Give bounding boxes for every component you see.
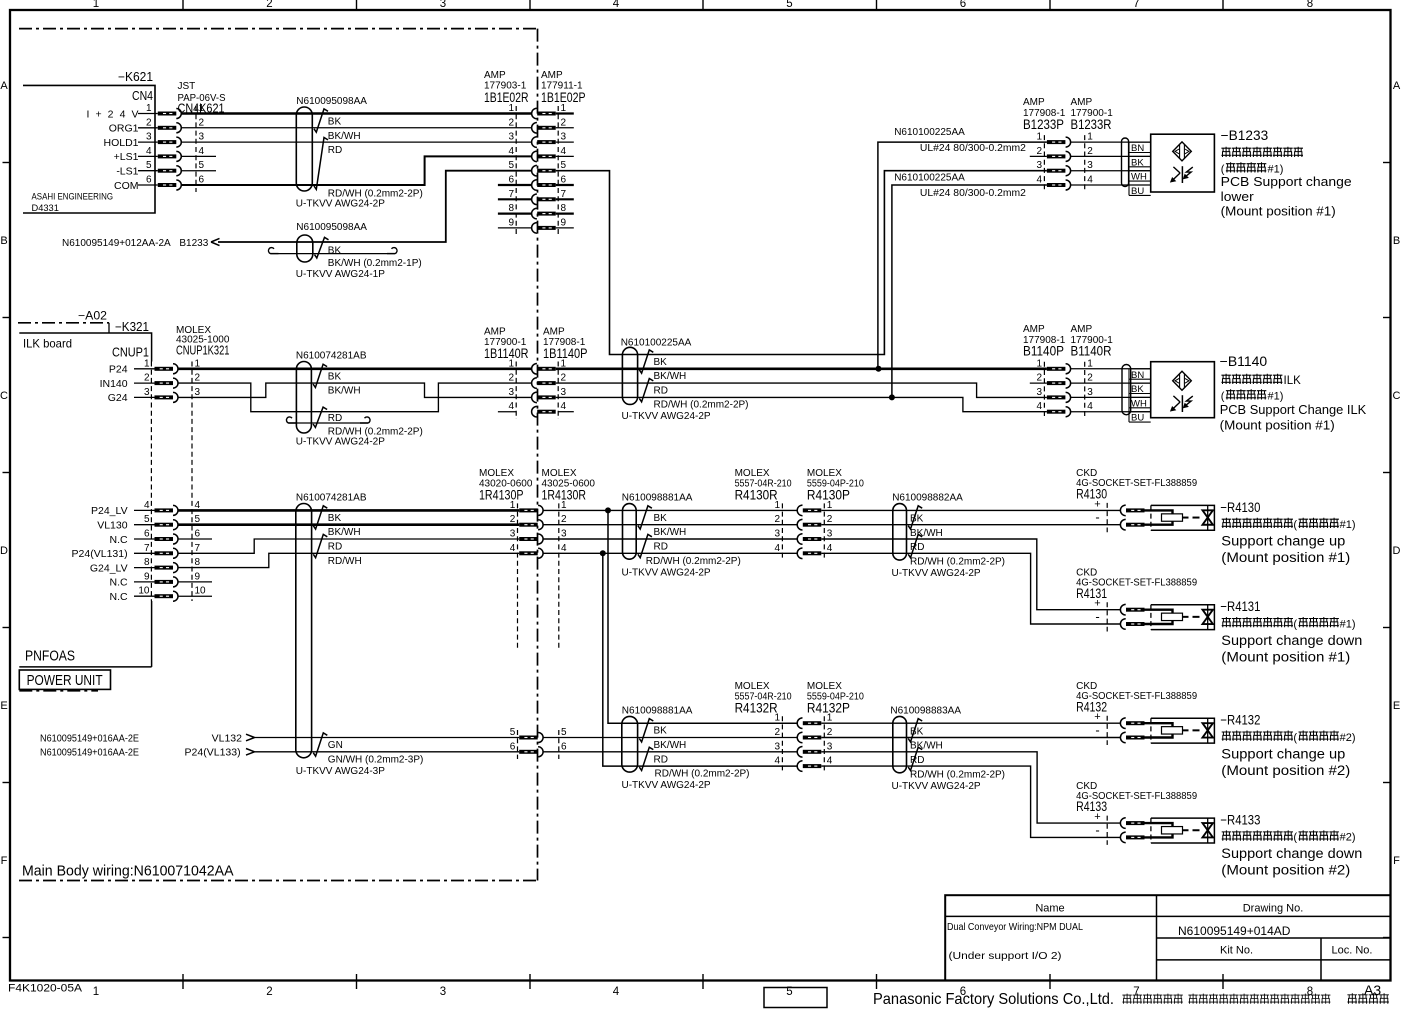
svg-text:1: 1	[1036, 358, 1042, 369]
wire G24 branch to B1233P.4	[892, 185, 1047, 397]
svg-text:7: 7	[195, 543, 201, 554]
svg-text:F: F	[1393, 855, 1400, 867]
svg-text:Main Body wiring:N610071042AA: Main Body wiring:N610071042AA	[22, 864, 234, 880]
svg-text:2: 2	[508, 373, 514, 384]
svg-text:10: 10	[138, 586, 150, 597]
svg-text:6: 6	[144, 529, 150, 540]
label Panasonic japanese company name	[1122, 994, 1182, 1004]
svg-text:RD: RD	[328, 413, 342, 424]
svg-text:−R4133: −R4133	[1220, 813, 1260, 828]
svg-text:2: 2	[199, 117, 205, 128]
svg-text:5: 5	[199, 160, 205, 171]
svg-text:BK/WH (0.2mm2-1P): BK/WH (0.2mm2-1P)	[328, 258, 422, 269]
svg-text:-: -	[1095, 723, 1099, 738]
grid column numbers top	[93, 0, 1313, 10]
wire R4132P.2 to R4132 minus	[821, 737, 1121, 739]
svg-text:(: (	[1293, 732, 1297, 744]
footer empty box	[764, 988, 827, 1008]
svg-text:2: 2	[1036, 373, 1042, 384]
cable N610098883AA shield obround	[893, 716, 907, 772]
wire HOLD1 K621.3 to 1B1E02R.3	[181, 141, 532, 143]
svg-text:RD: RD	[910, 542, 924, 553]
sensor B1140 box	[1151, 362, 1215, 418]
svg-text:7: 7	[144, 543, 150, 554]
svg-text:PCB Support Change ILK: PCB Support Change ILK	[1220, 402, 1367, 417]
svg-text:AMP: AMP	[484, 70, 506, 81]
svg-text:1: 1	[93, 986, 99, 998]
svg-text:U-TKVV AWG24-2P: U-TKVV AWG24-2P	[296, 436, 385, 447]
svg-text:2: 2	[774, 514, 780, 525]
svg-text:2: 2	[561, 117, 567, 128]
svg-text:AMP: AMP	[1023, 97, 1045, 108]
ILK board edge lower solid	[151, 601, 153, 667]
svg-text:U-TKVV AWG24-2P: U-TKVV AWG24-2P	[892, 781, 981, 792]
svg-text:1: 1	[144, 358, 150, 369]
svg-text:UL#24 80/300-0.2mm2: UL#24 80/300-0.2mm2	[920, 188, 1026, 199]
svg-text:C: C	[0, 390, 8, 402]
svg-text:Support change down: Support change down	[1221, 633, 1362, 648]
svg-text:P24(VL131): P24(VL131)	[72, 548, 128, 560]
svg-text:3: 3	[561, 387, 567, 398]
svg-text:BK: BK	[328, 371, 342, 382]
svg-text:3: 3	[510, 529, 516, 540]
svg-text:BU: BU	[1131, 413, 1144, 424]
twisted pair tick marks cable N610098881AA row D	[638, 506, 652, 529]
svg-text:BK: BK	[654, 513, 668, 524]
twisted pair tick marks cable N610098881AA row E	[639, 719, 653, 742]
svg-text:U-TKVV AWG24-3P: U-TKVV AWG24-3P	[296, 766, 385, 777]
svg-text:-: -	[1095, 510, 1099, 525]
grid row ticks left	[3, 162, 11, 164]
svg-text:(Mount position #1): (Mount position #1)	[1220, 418, 1335, 433]
wire P24 CNUP1.1 to 1B1140R.1	[178, 367, 532, 370]
svg-text:2: 2	[510, 514, 516, 525]
svg-text:B1140R: B1140R	[1071, 344, 1112, 359]
wire G24 1B1140P.3 jog to B1140P.4	[556, 397, 1047, 411]
svg-text:N610100225AA: N610100225AA	[894, 172, 965, 183]
svg-text:-: -	[1095, 609, 1099, 624]
svg-text:GN: GN	[328, 740, 343, 751]
svg-text:B1233: B1233	[179, 238, 208, 249]
cable N610095098AA shield obround row A	[296, 107, 312, 191]
svg-text:8: 8	[144, 557, 150, 568]
svg-text:N610098881AA: N610098881AA	[622, 705, 693, 716]
svg-text:4: 4	[774, 756, 780, 767]
svg-text:-LS1: -LS1	[116, 166, 138, 178]
svg-text:B: B	[1393, 235, 1400, 247]
svg-text:7: 7	[561, 189, 567, 200]
svg-text:3: 3	[1036, 387, 1042, 398]
wire COM K621.6 jog up to 1B1E02R.4	[181, 156, 532, 185]
svg-text:WH: WH	[1131, 398, 1147, 409]
svg-text:4: 4	[1036, 175, 1042, 186]
svg-text:MOLEX: MOLEX	[735, 468, 770, 479]
svg-text:N610095149+016AA-2E: N610095149+016AA-2E	[40, 748, 139, 759]
svg-text:COM: COM	[114, 180, 139, 192]
svg-text:4: 4	[1087, 175, 1093, 186]
twisted pair tick marks tall cable	[313, 506, 327, 529]
svg-text:U-TKVV AWG24-1P: U-TKVV AWG24-1P	[296, 269, 385, 280]
svg-text:3: 3	[1087, 387, 1093, 398]
svg-text:2: 2	[827, 727, 833, 738]
svg-text:RD/WH: RD/WH	[328, 556, 362, 567]
svg-text:3: 3	[827, 529, 833, 540]
svg-text:A3: A3	[1364, 982, 1381, 998]
connector 1B1E02 boundary dashed lines	[515, 106, 517, 235]
cable N610098882AA shield obround	[893, 504, 907, 560]
label R4132 japanese	[1222, 731, 1293, 741]
wire N.C CNUP1.10 stub	[178, 595, 212, 597]
svg-text:(: (	[1293, 618, 1297, 630]
svg-text:6: 6	[561, 741, 567, 752]
svg-text:Support change down: Support change down	[1221, 846, 1362, 861]
svg-text:HOLD1: HOLD1	[103, 137, 138, 149]
label R4131 japanese	[1222, 617, 1293, 627]
svg-text:BK/WH: BK/WH	[654, 527, 687, 538]
svg-text:R4130R: R4130R	[735, 488, 778, 503]
junction dot P24 / B1233 feed	[876, 366, 882, 372]
svg-text:R4132: R4132	[1076, 699, 1107, 714]
svg-text:N.C: N.C	[110, 534, 129, 546]
svg-text:4: 4	[1087, 401, 1093, 412]
wire P24(VL133) to 1R4130P.6	[255, 751, 520, 753]
wire R4130P.3 down to R4131 plus	[821, 539, 1121, 610]
connector K621 box outline	[23, 85, 155, 213]
wire VL132 to 1R4130P.5	[255, 737, 520, 739]
sensor B1233 box	[1151, 134, 1215, 192]
wire G24_LV branch down to R4132R.4	[603, 553, 798, 766]
svg-text:8: 8	[561, 203, 567, 214]
svg-text:3: 3	[1087, 160, 1093, 171]
twisted pair tick mark cable row B	[315, 237, 329, 258]
wire +LS1 stub	[181, 155, 216, 157]
svg-text:BK/WH: BK/WH	[328, 131, 361, 142]
wire IN140 1B1140P.2 jog to B1140P.3	[556, 383, 1047, 397]
svg-text:4: 4	[561, 146, 567, 157]
svg-text:6: 6	[195, 529, 201, 540]
PNFOAS board outline	[19, 666, 151, 668]
svg-text:CN4: CN4	[132, 89, 153, 103]
label R4133 japanese	[1222, 830, 1293, 840]
svg-text:BK: BK	[328, 245, 342, 256]
svg-text:BU: BU	[1131, 186, 1144, 197]
wire R4132P.3 down to R4133 plus	[821, 752, 1121, 823]
wire P24 1B1140P.1 to B1140P.1	[556, 367, 1047, 370]
svg-text:-: -	[1095, 822, 1099, 837]
svg-text:AMP: AMP	[484, 326, 506, 337]
svg-text:10: 10	[195, 586, 207, 597]
sensor wire color cells BN BK WH BU (B1233)	[1128, 142, 1130, 195]
svg-text:N.C: N.C	[110, 577, 129, 589]
svg-text:1: 1	[561, 500, 567, 511]
connector B1233P|B1233R boundary dashed lines	[1043, 135, 1045, 192]
svg-text:Loc. No.: Loc. No.	[1332, 945, 1373, 957]
svg-text:Support change up: Support change up	[1221, 534, 1345, 549]
svg-text:N610100225AA: N610100225AA	[894, 127, 965, 138]
svg-text:3: 3	[774, 741, 780, 752]
boundary -A02 dash-dot	[18, 322, 109, 324]
socket R4130 pin contacts	[1120, 505, 1125, 516]
svg-text:6: 6	[960, 0, 966, 10]
svg-text:5: 5	[146, 160, 152, 171]
svg-text:RD: RD	[328, 145, 342, 156]
svg-text:7: 7	[508, 189, 514, 200]
connector R4132R|R4132P boundary dashed lines	[781, 716, 783, 773]
svg-text:2: 2	[144, 373, 150, 384]
svg-text:(Mount position #1): (Mount position #1)	[1221, 204, 1336, 219]
svg-text:RD: RD	[654, 542, 668, 553]
svg-text:AMP: AMP	[541, 70, 563, 81]
connector CNUP1 boundary dashed lines	[150, 362, 152, 602]
svg-text:AMP: AMP	[1071, 97, 1093, 108]
svg-text:POWER UNIT: POWER UNIT	[27, 673, 103, 689]
svg-text:JST: JST	[178, 81, 196, 92]
title block vertical divider	[1156, 895, 1158, 980]
svg-text:IN140: IN140	[100, 378, 128, 390]
svg-text:Panasonic Factory Solutions Co: Panasonic Factory Solutions Co.,Ltd.	[873, 991, 1114, 1008]
svg-text:ILK: ILK	[1284, 375, 1302, 387]
svg-text:MOLEX: MOLEX	[479, 468, 514, 479]
svg-text:2: 2	[146, 117, 152, 128]
svg-text:BK: BK	[328, 513, 342, 524]
svg-text:1B1E02R: 1B1E02R	[484, 90, 529, 105]
svg-text:ORG1: ORG1	[109, 123, 139, 135]
svg-text:+: +	[1094, 811, 1100, 823]
svg-text:P24(VL133): P24(VL133)	[185, 747, 241, 759]
svg-text:GN/WH (0.2mm2-3P): GN/WH (0.2mm2-3P)	[328, 754, 424, 765]
svg-text:9: 9	[144, 571, 150, 582]
svg-text:(Mount position #1): (Mount position #1)	[1221, 550, 1350, 565]
svg-text:−R4130: −R4130	[1220, 500, 1260, 515]
svg-text:(Mount position #1): (Mount position #1)	[1221, 649, 1350, 664]
svg-text:#1): #1)	[1340, 618, 1356, 630]
svg-text:9: 9	[195, 571, 201, 582]
svg-text:1: 1	[1036, 132, 1042, 143]
svg-text:9: 9	[561, 217, 567, 228]
svg-text:1: 1	[827, 713, 833, 724]
svg-text:4: 4	[1036, 401, 1042, 412]
wire R4132P.4 down to R4133 minus	[821, 766, 1121, 837]
svg-text:−R4132: −R4132	[1220, 713, 1260, 728]
junction dot G24_LV branch	[600, 550, 606, 556]
svg-text:CNUP1K321: CNUP1K321	[176, 343, 230, 358]
svg-text:4: 4	[510, 543, 516, 554]
socket R4133 pin contacts	[1120, 818, 1125, 829]
svg-text:U-TKVV AWG24-2P: U-TKVV AWG24-2P	[622, 780, 711, 791]
wire R4130P.4 down to R4131 minus	[821, 553, 1121, 624]
wire R4130P.1 to R4130 plus	[821, 509, 1121, 511]
svg-text:U-TKVV AWG24-2P: U-TKVV AWG24-2P	[622, 567, 711, 578]
main body wiring dash-dot boundary top	[19, 28, 538, 30]
cable N610100225AA shield obround row C	[622, 347, 637, 404]
svg-text:UL#24 80/300-0.2mm2: UL#24 80/300-0.2mm2	[920, 143, 1026, 154]
svg-text:2: 2	[195, 373, 201, 384]
svg-text:D: D	[0, 545, 8, 557]
cable N610074281AB shield obround row C	[296, 362, 311, 434]
wire G24_LV CNUP1.8 jog to 1R4130P.4	[178, 553, 520, 567]
svg-text:7: 7	[1133, 0, 1139, 10]
grid column numbers bottom	[93, 986, 1313, 998]
svg-text:−A02: −A02	[78, 311, 107, 323]
svg-text:N610095149+016AA-2E: N610095149+016AA-2E	[40, 733, 139, 744]
svg-text:R4131: R4131	[1076, 586, 1107, 601]
twisted pair tick marks cable row C	[313, 364, 327, 387]
cable N610098881AA shield obround row D	[623, 504, 637, 560]
svg-text:−R4131: −R4131	[1220, 599, 1260, 614]
svg-text:BK: BK	[1131, 384, 1144, 395]
svg-text:3: 3	[1036, 160, 1042, 171]
wire P24(VL131) CNUP1.7 jog to 1R4130P.3	[178, 539, 520, 553]
svg-text:RD: RD	[328, 542, 342, 553]
svg-text:B1233P: B1233P	[1023, 117, 1064, 132]
svg-text:N610098883AA: N610098883AA	[890, 705, 961, 716]
svg-text:2: 2	[561, 373, 567, 384]
svg-text:3: 3	[195, 387, 201, 398]
svg-text:MOLEX: MOLEX	[807, 468, 842, 479]
connector 1B1140 boundary dashed lines	[515, 362, 517, 420]
svg-text:BK: BK	[654, 726, 668, 737]
svg-text:2: 2	[266, 0, 272, 10]
svg-text:ASAHI ENGINEERING: ASAHI ENGINEERING	[32, 192, 114, 202]
svg-text:RD: RD	[654, 754, 668, 765]
svg-text:F: F	[1, 855, 8, 867]
svg-text:4: 4	[613, 0, 620, 10]
connector 1R4130 pins 5-6 boundary dashed lines	[517, 730, 519, 759]
svg-text:Drawing No.: Drawing No.	[1243, 903, 1304, 915]
grid row letters left	[0, 80, 8, 867]
svg-text:4: 4	[144, 500, 150, 511]
svg-text:6: 6	[508, 175, 514, 186]
svg-text:−K621: −K621	[118, 70, 153, 84]
grid column ticks bottom	[182, 974, 184, 989]
svg-text:Kit No.: Kit No.	[1220, 945, 1253, 957]
svg-text:N610095149+012AA-2A: N610095149+012AA-2A	[62, 238, 171, 249]
junction dot G24 / B1233 return	[889, 394, 895, 400]
wire R4132P.1 to R4132 plus	[821, 722, 1121, 724]
svg-text:E: E	[1393, 700, 1400, 712]
svg-text:4: 4	[561, 543, 567, 554]
svg-text:3: 3	[144, 387, 150, 398]
svg-text:P24: P24	[109, 364, 128, 376]
wire VL130 CNUP1.5 to 1R4130P.2	[178, 523, 520, 526]
svg-text:1: 1	[1087, 358, 1093, 369]
svg-text:6: 6	[199, 175, 205, 186]
svg-text:4: 4	[561, 401, 567, 412]
svg-text:5: 5	[561, 160, 567, 171]
svg-text:N610095098AA: N610095098AA	[296, 96, 367, 107]
svg-text:#2): #2)	[1340, 732, 1356, 744]
cable shield obround B1233	[1122, 138, 1129, 187]
svg-text:A: A	[1393, 80, 1401, 92]
label B1140 japanese line 1	[1221, 374, 1282, 384]
socket R4131 body box	[1151, 605, 1215, 630]
svg-text:MOLEX: MOLEX	[807, 681, 842, 692]
svg-text:4: 4	[774, 543, 780, 554]
svg-text:N.C: N.C	[110, 591, 129, 603]
POWER UNIT box	[19, 670, 110, 689]
svg-text:D4331: D4331	[32, 203, 59, 213]
svg-text:VL130: VL130	[97, 520, 128, 532]
wire 1R4130R.5 to R4132R.2	[543, 737, 798, 739]
sensor wire color cells BN BK WH BU (B1140)	[1128, 369, 1130, 422]
svg-text:G24: G24	[108, 392, 128, 404]
wire R4130P.2 to R4130 minus	[821, 524, 1121, 526]
svg-text:MOLEX: MOLEX	[735, 681, 770, 692]
svg-text:RD: RD	[654, 385, 668, 396]
svg-text:RD/WH (0.2mm2-2P): RD/WH (0.2mm2-2P)	[910, 557, 1005, 568]
socket R4133 mating dashed line	[1106, 816, 1108, 845]
svg-text:(: (	[1293, 519, 1297, 531]
svg-text:Dual Conveyor Wiring:NPM DUAL: Dual Conveyor Wiring:NPM DUAL	[947, 922, 1083, 933]
svg-text:2: 2	[827, 514, 833, 525]
wire B1233 return to 1B1E02R.5	[218, 171, 532, 242]
svg-text:#1): #1)	[1340, 519, 1356, 531]
POWER UNIT dash-dot boundary	[19, 690, 98, 692]
svg-text:R4130: R4130	[1076, 487, 1107, 502]
connector R4130R|R4130P boundary dashed lines	[781, 503, 783, 560]
svg-text:N610074281AB: N610074281AB	[296, 493, 367, 504]
svg-text:1: 1	[774, 500, 780, 511]
svg-text:PCB Support change: PCB Support change	[1221, 174, 1352, 189]
svg-text:RD/WH (0.2mm2-2P): RD/WH (0.2mm2-2P)	[655, 769, 750, 780]
svg-text:AMP: AMP	[1071, 324, 1093, 335]
wire 1R4130R.6 to R4132R.3	[543, 751, 798, 753]
svg-text:4: 4	[508, 146, 514, 157]
svg-text:VL132: VL132	[212, 732, 243, 744]
junction dot P24_LV branch	[605, 507, 611, 513]
svg-text:lower: lower	[1221, 189, 1255, 204]
svg-text:1: 1	[146, 103, 152, 114]
svg-text:6: 6	[561, 175, 567, 186]
main body wiring dash-dot boundary bottom	[19, 880, 538, 882]
svg-text:4: 4	[146, 146, 152, 157]
svg-text:(Mount position #2): (Mount position #2)	[1221, 763, 1350, 778]
cable shield obround B1140	[1122, 365, 1131, 415]
svg-text:N610095098AA: N610095098AA	[296, 222, 367, 233]
svg-text:BK/WH: BK/WH	[328, 386, 361, 397]
svg-text:A: A	[0, 80, 8, 92]
connector K621 mate dashed line	[195, 106, 197, 192]
svg-text:3: 3	[561, 529, 567, 540]
twisted pair tick marks cable N610098882AA	[908, 506, 922, 529]
svg-text:U-TKVV AWG24-2P: U-TKVV AWG24-2P	[622, 411, 711, 422]
wire P24_LV CNUP1.4 to 1R4130P.1	[178, 509, 520, 512]
connector B1140P|B1140R boundary dashed lines	[1043, 362, 1045, 419]
svg-text:4: 4	[827, 543, 833, 554]
svg-text:BK: BK	[328, 117, 342, 128]
svg-text:E: E	[0, 700, 7, 712]
svg-text:3: 3	[774, 529, 780, 540]
svg-text:1: 1	[508, 358, 514, 369]
svg-text:D: D	[1393, 545, 1401, 557]
svg-text:WH: WH	[1131, 172, 1147, 183]
socket R4131 pin contacts	[1120, 604, 1125, 615]
grid row ticks right	[1383, 162, 1391, 164]
svg-text:BK/WH: BK/WH	[910, 528, 943, 539]
svg-text:AMP: AMP	[1023, 324, 1045, 335]
wire N.C CNUP1.9 stub	[178, 581, 212, 583]
title block outer	[945, 895, 1390, 980]
svg-text:3: 3	[440, 0, 446, 10]
svg-text:1: 1	[1087, 132, 1093, 143]
label B1233 japanese line 1	[1221, 147, 1303, 157]
dangling pair wire row B with end hooks	[271, 253, 396, 255]
wire 1R4130R.3 to R4130R.3	[543, 538, 798, 540]
svg-text:N610074281AB: N610074281AB	[296, 350, 367, 361]
svg-text:8: 8	[195, 557, 201, 568]
cable N610095098AA shield obround row B	[297, 235, 313, 262]
svg-text:(: (	[1221, 391, 1225, 403]
